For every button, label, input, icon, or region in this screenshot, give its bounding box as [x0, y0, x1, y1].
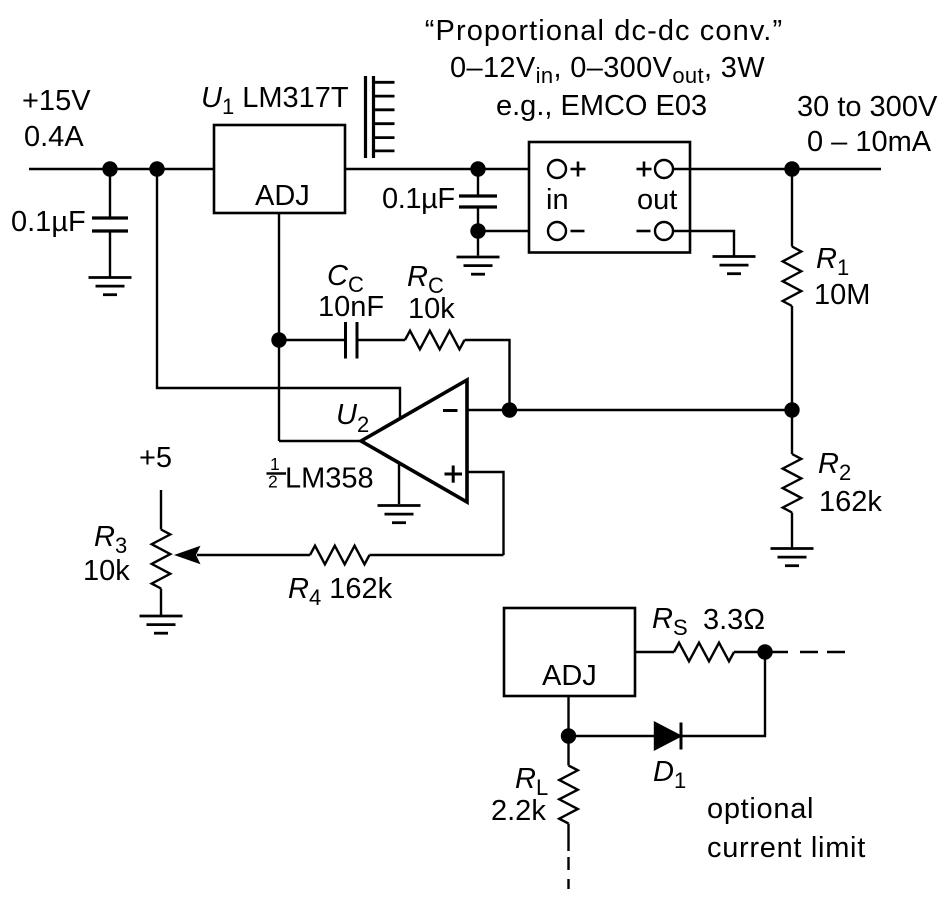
wire U1 ADJ pin down to op-amp output: [278, 213, 280, 441]
node junction dot at HV output: [785, 162, 799, 176]
wire R3 to ground: [160, 589, 162, 617]
op-amp U2 triangle: [361, 380, 467, 502]
capacitor 0.1uF converter bypass plates: [459, 194, 497, 197]
capacitor CC plates: [344, 322, 347, 359]
ground below R2: [771, 547, 814, 550]
node junction dot RS output: [758, 645, 772, 659]
ground below C2: [457, 256, 500, 259]
wire R4 left lead to wiper: [197, 554, 310, 556]
svg-text:out: out: [637, 184, 677, 216]
wire ADJ box bottom pin: [567, 696, 569, 766]
wire converter -out to ground: [673, 231, 734, 256]
wire diode anode to ADJ node: [569, 735, 656, 737]
node junction dot at RC tap: [502, 403, 516, 417]
wire R1 to divider node: [791, 306, 793, 410]
pin label minus inverting input: [443, 409, 458, 412]
ground below converter -out: [713, 255, 756, 258]
wire R2 to ground: [791, 513, 793, 549]
svg-text:ADJ: ADJ: [542, 660, 597, 692]
ground below R3: [140, 615, 183, 618]
regulator ADJ box current limit: [504, 608, 635, 696]
capacitor 0.1uF input bypass plates: [92, 216, 128, 219]
svg-text:R4 162k: R4 162k: [288, 573, 393, 610]
svg-text:+15V: +15V: [22, 85, 91, 117]
svg-text:D1: D1: [653, 756, 686, 793]
wire R4 right lead: [370, 554, 504, 556]
svg-text:2: 2: [268, 472, 278, 492]
svg-text:optional: optional: [707, 793, 814, 825]
node junction dot at C1 tap: [103, 162, 117, 176]
wire C2 bottom lead: [477, 209, 479, 256]
potentiometer R3: [152, 530, 171, 589]
wire RC to inverting node: [465, 340, 510, 410]
diode D1: [655, 723, 680, 749]
svg-text:10k: 10k: [408, 293, 455, 325]
resistor R2: [783, 454, 802, 513]
wire HV node to R1: [791, 169, 793, 247]
svg-text:+5: +5: [139, 442, 172, 474]
wire inverting input to divider: [467, 409, 792, 411]
wire C1 top lead: [109, 169, 111, 217]
svg-text:R1: R1: [816, 243, 849, 280]
converter module box: [529, 142, 690, 253]
resistor R1: [783, 247, 802, 307]
resistor RS: [674, 643, 734, 662]
svg-text:LM358: LM358: [285, 463, 374, 495]
svg-text:0.1µF: 0.1µF: [11, 206, 86, 238]
wire U1 output to converter: [345, 168, 548, 170]
svg-text:“Proportional dc-dc conv.”: “Proportional dc-dc conv.”: [425, 15, 783, 47]
wire RS node down to diode: [682, 652, 765, 736]
wire RS to output node: [734, 651, 788, 653]
wire op-amp output to ADJ wire: [279, 440, 365, 442]
ground below C1: [89, 276, 132, 279]
resistor RL: [559, 766, 578, 824]
wire ADJ box to RS: [635, 651, 674, 653]
wire op-amp V+ supply from rail: [157, 169, 400, 424]
svg-text:10nF: 10nF: [318, 291, 384, 323]
wire divider node to R2: [791, 410, 793, 454]
wire +5 to R3: [160, 490, 162, 530]
wire ADJ tap to CC: [279, 339, 344, 341]
svg-text:2.2k: 2.2k: [491, 795, 546, 827]
wire +15V input rail left segment: [29, 168, 214, 170]
terminal circle +out: [655, 160, 673, 178]
wire op-amp V- stem: [398, 455, 400, 504]
wire dashed continuation right: [800, 651, 818, 653]
node junction dot at RL tap: [561, 729, 575, 743]
ground below op-amp: [378, 504, 421, 507]
wire converter output rail: [673, 168, 881, 170]
pin label plus at +out: [637, 168, 652, 171]
pin label plus noninverting input: [445, 473, 463, 476]
svg-text:0.1µF: 0.1µF: [382, 183, 455, 215]
heat sink on U1: [364, 76, 367, 158]
svg-text:162k: 162k: [819, 486, 882, 518]
svg-text:30 to 300V: 30 to 300V: [797, 91, 938, 123]
wiper arrow into R3: [174, 546, 201, 564]
wire RL bottom dashed: [567, 824, 569, 852]
pin label minus at -in: [571, 230, 585, 233]
svg-text:current limit: current limit: [707, 832, 866, 864]
resistor R4: [310, 546, 370, 565]
terminal circle +in: [548, 160, 566, 178]
node junction dot at op-amp supply tap: [150, 162, 164, 176]
terminal circle -out: [655, 222, 673, 240]
node junction dot at C2 bottom: [471, 224, 485, 238]
resistor RC: [405, 331, 465, 350]
svg-text:R3: R3: [94, 521, 127, 558]
svg-text:R2: R2: [818, 448, 851, 485]
node junction dot divider: [785, 403, 799, 417]
svg-text:in: in: [546, 184, 569, 216]
svg-text:0.4A: 0.4A: [24, 121, 84, 153]
regulator U1 box: [214, 125, 345, 213]
svg-text:U2: U2: [336, 399, 369, 437]
wire C2 top lead: [477, 169, 479, 195]
svg-text:10k: 10k: [83, 555, 130, 587]
svg-text:10M: 10M: [814, 279, 870, 311]
svg-text:U1 LM317T: U1 LM317T: [201, 82, 349, 119]
wire converter -in to C2 node: [478, 230, 548, 232]
wire C1 bottom lead: [109, 233, 111, 278]
pin label plus at +in: [571, 168, 586, 171]
terminal circle -in: [548, 222, 566, 240]
svg-text:ADJ: ADJ: [255, 180, 310, 212]
node junction dot at C2 top: [471, 162, 485, 176]
svg-text:RS: RS: [652, 603, 688, 640]
svg-text:3.3Ω: 3.3Ω: [703, 604, 765, 636]
node junction dot at ADJ compensation tap: [272, 333, 286, 347]
svg-text:0–12Vin, 0–300Vout, 3W: 0–12Vin, 0–300Vout, 3W: [450, 52, 765, 88]
wire noninverting input to R4: [467, 472, 504, 555]
wire CC to RC: [359, 339, 406, 341]
svg-text:0 – 10mA: 0 – 10mA: [807, 126, 932, 158]
svg-text:e.g., EMCO E03: e.g., EMCO E03: [496, 90, 707, 122]
pin label minus at -out: [637, 230, 651, 233]
